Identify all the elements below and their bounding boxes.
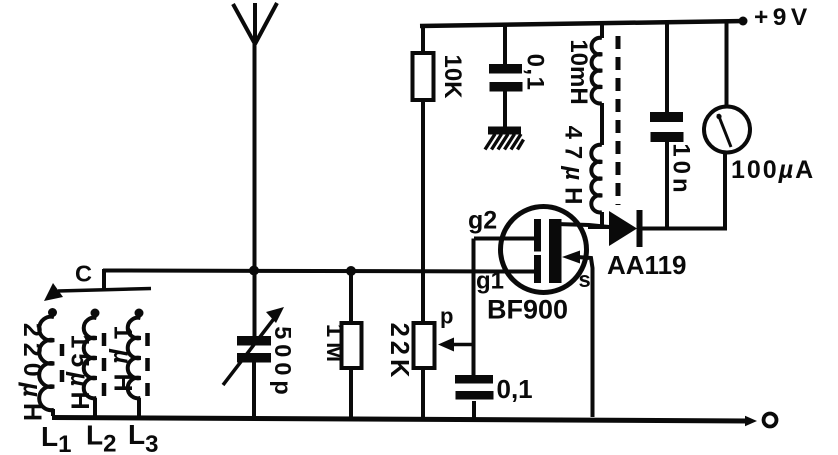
capacitor 0,1 (source of g2 line, bottom) — [455, 374, 533, 419]
wire: meter down to output node — [642, 152, 727, 230]
svg-text:BF900: BF900 — [487, 295, 568, 325]
svg-text:+9V: +9V — [754, 4, 812, 31]
inductor 10mH — [565, 38, 602, 105]
wire: 0V bottom rail — [52, 418, 748, 422]
svg-text:220µH: 220µH — [18, 323, 46, 427]
svg-text:500p: 500p — [270, 326, 296, 400]
core: dashed line of 10mH/47uH — [616, 36, 621, 205]
source lead with arrow — [562, 251, 580, 264]
svg-text:g2: g2 — [468, 207, 497, 235]
svg-text:L2: L2 — [86, 420, 116, 455]
node: output terminal open circle — [764, 414, 777, 427]
inductor 47uH — [560, 126, 602, 213]
node: output terminal arrow — [745, 416, 757, 427]
wire: 10mH to 47uH — [600, 103, 604, 145]
svg-text:L3: L3 — [128, 419, 158, 455]
svg-text:p: p — [440, 304, 453, 329]
inductor L1 220uH — [18, 308, 71, 455]
variable capacitor 500p — [223, 307, 296, 400]
svg-text:100µA: 100µA — [731, 156, 815, 184]
wire: +9V top supply rail — [420, 21, 745, 26]
resistor 1M — [321, 272, 361, 419]
diode AA119 — [607, 210, 687, 280]
wire: drain to diode anode — [588, 225, 610, 229]
svg-text:L1: L1 — [41, 421, 71, 455]
wire: rail to 10n — [665, 22, 669, 113]
svg-text:10mH: 10mH — [565, 39, 592, 104]
svg-text:10n: 10n — [668, 143, 695, 196]
wiper arrow — [452, 343, 472, 347]
svg-text:10K: 10K — [439, 54, 466, 99]
svg-text:47µH: 47µH — [560, 126, 587, 212]
svg-text:15µH: 15µH — [65, 334, 93, 414]
switch C (coil selector) — [44, 261, 151, 302]
inductor L3 1uH — [108, 309, 158, 455]
svg-text:22K: 22K — [385, 323, 413, 382]
wire: antenna line through 500p to 0V rail — [252, 362, 256, 418]
capacitor 10n — [650, 112, 695, 197]
potentiometer 22K — [385, 271, 472, 420]
svg-text:s: s — [579, 267, 591, 292]
junction dot: antenna / mid rail — [249, 266, 259, 276]
wire: rail to 10mH — [600, 23, 604, 38]
drain lead — [556, 224, 609, 227]
svg-text:AA119: AA119 — [607, 250, 687, 280]
gate bars — [534, 219, 541, 252]
wire: 10K down to mid rail — [421, 100, 425, 271]
node: +9V terminal dot — [739, 17, 748, 26]
antenna — [233, 3, 277, 336]
svg-text:0,1: 0,1 — [497, 374, 533, 404]
wire: rail to meter — [725, 21, 729, 107]
wire: 0,1 cap to ground — [503, 91, 507, 128]
wire: rail to 0,1 cap — [503, 24, 507, 65]
channel bar — [549, 219, 562, 283]
svg-text:0,1: 0,1 — [522, 54, 549, 92]
wire: g2 line down to wiper and 0,1 — [472, 239, 476, 377]
resistor 10K — [413, 53, 467, 100]
svg-text:1M: 1M — [321, 324, 348, 367]
capacitor 0,1 (decoupling, top) — [489, 54, 549, 92]
meter 100uA — [704, 107, 815, 185]
wire: rail to 10K — [421, 25, 425, 54]
wire: mid rail (tank circuit to g1) — [103, 271, 534, 272]
ground — [485, 127, 524, 150]
wire: 47uH down to drain wire — [600, 212, 604, 229]
wire: 10n down to diode output node — [665, 142, 669, 228]
svg-text:1µH: 1µH — [108, 325, 136, 401]
label +9V — [754, 4, 812, 31]
junction dot: 1M / mid rail — [346, 266, 356, 276]
gate2 lead — [474, 237, 534, 241]
svg-text:C: C — [75, 261, 92, 287]
transistor BF900 (dual-gate MOSFET) — [468, 207, 609, 418]
inductor L2 15uH — [65, 309, 116, 455]
